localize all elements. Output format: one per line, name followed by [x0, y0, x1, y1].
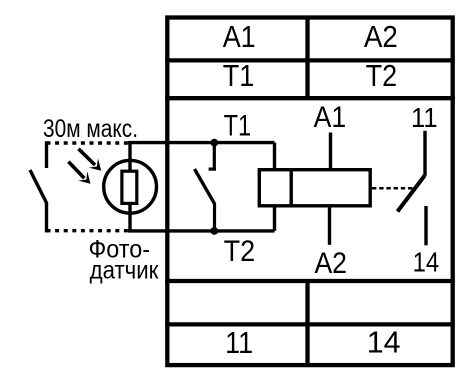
svg-text:T2: T2 [366, 58, 398, 93]
photo sensor vertical wire top [128, 143, 131, 172]
photo sensor circle [104, 160, 157, 213]
photo sensor vertical wire bottom [128, 203, 131, 231]
relay coil body [259, 170, 370, 206]
light arrow 1 [79, 149, 102, 171]
svg-text:30м макс.: 30м макс. [43, 115, 138, 143]
internal switch lower stub [213, 204, 216, 231]
svg-text:11: 11 [225, 325, 253, 360]
relay contact blade 11-14 [398, 176, 425, 212]
svg-text:A1: A1 [223, 19, 256, 54]
wire terminal 11 [423, 131, 426, 176]
table row divider 1 [165, 58, 455, 62]
wire terminal 14 [424, 206, 427, 245]
svg-text:T1: T1 [224, 110, 252, 143]
dotted wire bottom (remote sensor cable) [47, 229, 129, 232]
external switch top stub [45, 141, 48, 168]
photo resistor body [122, 171, 137, 203]
terminal table outer frame [167, 18, 452, 366]
external switch bottom stub [45, 202, 48, 232]
wire coil to A2 [328, 206, 331, 245]
svg-text:T2: T2 [224, 235, 256, 268]
table column divider bottom [305, 281, 309, 365]
svg-text:11: 11 [411, 102, 438, 133]
svg-text:датчик: датчик [90, 257, 160, 285]
svg-text:14: 14 [367, 325, 401, 360]
node T2 junction [210, 227, 218, 235]
internal switch blade [195, 169, 215, 204]
svg-text:14: 14 [413, 246, 440, 277]
wire: link from top wire down to coil [273, 143, 276, 170]
wire A1 to coil [329, 133, 332, 170]
svg-text:A2: A2 [364, 19, 398, 54]
internal switch fixed stub [213, 143, 216, 170]
internal switch contact tick [209, 168, 216, 171]
table row divider 3 [165, 279, 455, 283]
dashed mechanical link coil to contact [372, 187, 414, 190]
wire: bottom horizontal (T2 line through box edge) [128, 229, 275, 232]
relay coil internal divider [290, 168, 293, 208]
wire: top horizontal (T1 line through box edge) [128, 141, 275, 144]
node T1 junction [210, 139, 218, 147]
external switch blade [30, 170, 46, 203]
table row divider 2 [165, 96, 455, 100]
svg-text:T1: T1 [223, 58, 255, 93]
light arrow 2 [68, 162, 90, 184]
wire: link from coil down to bottom wire [273, 206, 276, 231]
dotted wire top (remote sensor cable) [47, 141, 129, 144]
svg-text:A2: A2 [314, 247, 347, 280]
table column divider top [305, 18, 309, 99]
svg-text:A1: A1 [314, 101, 347, 134]
table row divider 4 [165, 322, 455, 326]
